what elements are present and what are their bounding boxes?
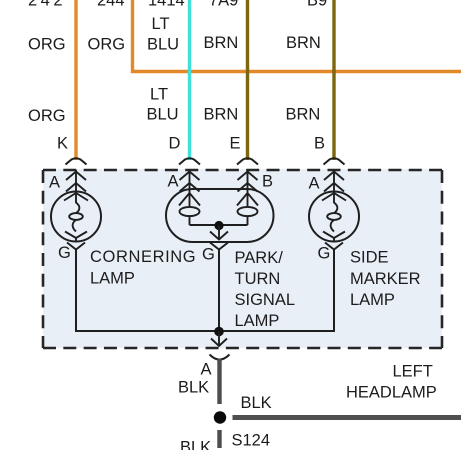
wire BRN vertical to pin B (332, 0, 335, 160)
side marker lamp G terminal arrow (325, 243, 343, 250)
side marker lamp bulb circle (309, 192, 359, 242)
wire ORG (circuit 242) vertical to pin K (74, 0, 77, 160)
side marker ground lead (333, 250, 335, 332)
svg-text:BRN: BRN (204, 106, 239, 124)
svg-text:LAMP: LAMP (235, 312, 280, 330)
svg-text:BLK: BLK (178, 379, 209, 397)
cornering lamp bulb circle (51, 192, 101, 242)
svg-text:A: A (201, 361, 212, 379)
svg-text:G: G (58, 244, 71, 262)
svg-text:BLK: BLK (241, 394, 272, 412)
wire BLK stub below splice (217, 430, 221, 448)
connector cap at pin B (324, 158, 345, 164)
left headlamp assembly dashed border left (42, 170, 45, 348)
connector cup at ground pin A (210, 355, 230, 360)
svg-text:ORG: ORG (88, 36, 126, 54)
svg-text:K: K (57, 135, 68, 153)
ground exit down arrow (211, 332, 227, 347)
svg-text:D: D (169, 135, 181, 153)
svg-text:B: B (314, 135, 325, 153)
pin A terminal arrows (park/turn) (180, 170, 200, 192)
svg-text:BRN: BRN (204, 34, 239, 52)
pin A terminal arrows (side marker) (324, 170, 344, 192)
svg-text:SIDE: SIDE (350, 249, 389, 267)
park/turn signal lamp bulb outline (stadium) (166, 189, 274, 242)
svg-text:BLU: BLU (147, 36, 179, 54)
svg-text:B9: B9 (307, 0, 327, 10)
svg-text:A: A (49, 174, 60, 192)
svg-text:S124: S124 (232, 432, 271, 450)
svg-text:CORNERING: CORNERING (90, 248, 196, 266)
common ground bus (75, 330, 335, 332)
svg-text:1414: 1414 (148, 0, 185, 10)
park/turn internal down arrow (210, 226, 228, 240)
svg-text:A: A (168, 173, 179, 191)
svg-text:BRN: BRN (286, 34, 321, 52)
svg-text:BRN: BRN (286, 106, 321, 124)
svg-text:BLU: BLU (147, 106, 179, 124)
left headlamp assembly dashed border bottom (43, 347, 442, 350)
wire LT BLU vertical to pin D (188, 0, 191, 160)
connector cap at pin D (179, 158, 200, 164)
svg-text:B: B (262, 173, 273, 191)
left headlamp assembly dashed border right (441, 170, 444, 348)
cornering lamp filament (64, 192, 88, 242)
pin B terminal arrows (park/turn) (238, 170, 258, 192)
cornering lamp ground lead (75, 250, 77, 332)
park/turn filament B (237, 189, 258, 225)
connector cap at pin K (66, 158, 87, 164)
svg-text:ORG: ORG (28, 36, 66, 54)
svg-text:G: G (318, 245, 331, 263)
ground bus junction node (214, 327, 224, 337)
svg-text:HEADLAMP: HEADLAMP (346, 384, 437, 402)
park/turn filament A (179, 189, 200, 225)
park/turn ground lead (218, 250, 220, 332)
svg-text:242: 242 (28, 0, 66, 10)
wire BLK vertical from headlamp (217, 359, 221, 405)
splice S124 node (214, 411, 226, 423)
svg-text:E: E (230, 135, 241, 153)
svg-text:TURN: TURN (235, 270, 281, 288)
park/turn internal junction node (214, 221, 223, 230)
svg-text:SIGNAL: SIGNAL (235, 291, 296, 309)
cornering lamp G terminal arrow (67, 243, 85, 250)
left headlamp assembly dashed border top (43, 169, 442, 172)
left headlamp assembly box fill (43, 169, 442, 348)
svg-text:LT: LT (150, 86, 168, 104)
svg-text:LAMP: LAMP (90, 270, 135, 288)
side marker lamp filament (322, 192, 346, 242)
svg-text:MARKER: MARKER (350, 270, 421, 288)
svg-text:244: 244 (97, 0, 125, 10)
svg-text:LAMP: LAMP (350, 291, 395, 309)
wire BRN vertical to pin E (246, 0, 249, 160)
svg-text:PARK/: PARK/ (235, 249, 284, 267)
pin A terminal arrows (cornering lamp) (66, 170, 86, 192)
svg-text:ORG: ORG (28, 107, 66, 125)
svg-text:G: G (202, 246, 215, 264)
svg-text:BLK: BLK (180, 439, 211, 450)
svg-text:A: A (309, 175, 320, 193)
svg-text:LT: LT (152, 15, 170, 33)
park/turn G terminal arrow (210, 243, 228, 250)
wire ORG (circuit 244) elbow, vertical then horizontal to right edge (133, 0, 461, 72)
connector cap at pin E (237, 158, 258, 164)
svg-text:LEFT: LEFT (393, 363, 433, 381)
svg-text:7A9: 7A9 (209, 0, 238, 10)
park/turn common bar (190, 224, 248, 226)
wire BLK horizontal to right (233, 415, 461, 420)
